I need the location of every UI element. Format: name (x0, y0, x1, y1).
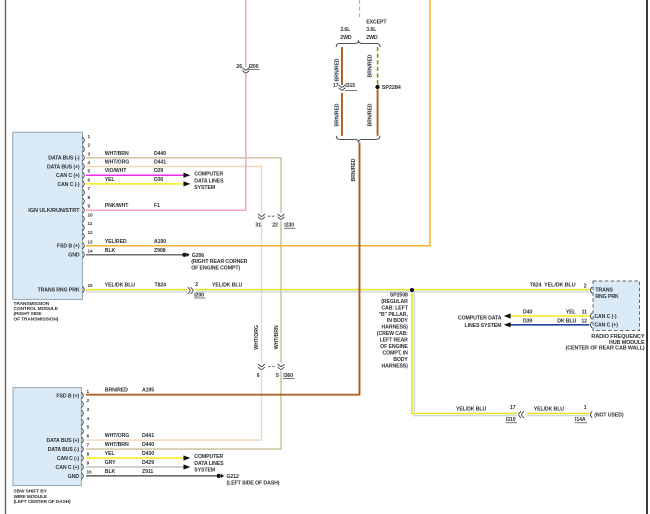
module RF hub caption (566, 334, 645, 352)
wire D430 YEL: SBW pin8 to computer data lines (86, 457, 184, 459)
svg-text:VIO/WHT: VIO/WHT (105, 168, 127, 174)
svg-text:YEL: YEL (105, 177, 116, 183)
svg-text:2WD: 2WD (366, 35, 378, 41)
svg-text:1: 1 (87, 389, 90, 394)
svg-text:GND: GND (68, 253, 80, 259)
node computer data lines system (SBW) (194, 454, 224, 474)
svg-text:17: 17 (510, 405, 516, 411)
svg-text:SYSTEM: SYSTEM (194, 468, 215, 474)
svg-text:CAN C (+): CAN C (+) (594, 323, 618, 329)
svg-text:DATA BUS (-): DATA BUS (-) (48, 156, 80, 162)
svg-text:TRANS: TRANS (595, 287, 613, 293)
svg-text:4: 4 (87, 416, 90, 421)
svg-text:I360: I360 (283, 373, 293, 379)
brace merge bottom (336, 136, 380, 143)
wire BRN/RED left branch upper (3.6L 2WD) (341, 47, 343, 85)
svg-text:COMPT, IN: COMPT, IN (382, 350, 408, 356)
svg-text:WHT/ORG: WHT/ORG (254, 325, 260, 349)
svg-text:SBW SHIFT BY: SBW SHIFT BY (14, 489, 48, 495)
border frame right (646, 0, 648, 514)
border frame left (5, 0, 7, 514)
splice SP2508 caption (377, 292, 409, 369)
module RF hub pin labels (594, 287, 619, 328)
module SBW pin labels (46, 393, 79, 479)
module TCM caption (14, 301, 59, 323)
svg-text:YEL/RED: YEL/RED (105, 239, 127, 245)
svg-text:14: 14 (88, 248, 94, 253)
module TCM box (13, 132, 83, 299)
svg-text:8: 8 (87, 452, 90, 457)
brace split top (336, 40, 380, 47)
svg-text:(CREW CAB:: (CREW CAB: (377, 331, 408, 337)
wire F1 PNK/WHT: TCM pin9 up off page (86, 74, 246, 210)
svg-text:D441: D441 (154, 160, 166, 166)
svg-text:BRN/RED: BRN/RED (351, 158, 357, 181)
svg-text:12: 12 (581, 318, 587, 324)
svg-text:DATA BUS (+): DATA BUS (+) (47, 164, 80, 170)
svg-text:YEL/DK BLU: YEL/DK BLU (456, 407, 486, 413)
wire Z908 BLK: TCM pin14 to ground (86, 254, 182, 256)
connector I310 pin 17 (506, 405, 525, 423)
node computer data lines system (TCM) (194, 171, 224, 191)
wire D29 VIO/WHT to computer data lines (86, 174, 184, 176)
svg-text:6: 6 (87, 434, 90, 439)
svg-text:I200: I200 (249, 64, 259, 70)
svg-text:T824 YEL/DK BLU: T824 YEL/DK BLU (530, 283, 576, 289)
svg-text:(RIGHT SIDE: (RIGHT SIDE (14, 311, 43, 317)
svg-text:YEL/DK BLU: YEL/DK BLU (534, 407, 564, 413)
svg-text:DATA BUS (+): DATA BUS (+) (46, 438, 79, 444)
svg-text:CAN C (+): CAN C (+) (56, 465, 80, 471)
svg-text:WHT/ORG: WHT/ORG (105, 433, 129, 439)
svg-text:DATA BUS (-): DATA BUS (-) (48, 447, 80, 453)
svg-text:A195: A195 (142, 388, 154, 394)
svg-text:D430: D430 (142, 451, 154, 457)
wire BRN/RED merged vertical to SBW pin 1 (A195) (358, 142, 360, 394)
module TCM pins 1-15 (82, 134, 93, 293)
svg-text:DATA LINES: DATA LINES (194, 178, 224, 184)
svg-text:5: 5 (88, 169, 91, 174)
svg-text:6: 6 (257, 373, 260, 379)
svg-text:G212: G212 (227, 474, 240, 480)
svg-text:D440: D440 (154, 151, 166, 157)
connector I230 pins 31 / 22 (255, 213, 295, 229)
svg-text:FSD B (+): FSD B (+) (57, 244, 80, 250)
svg-text:WHT/BRN: WHT/BRN (105, 442, 129, 448)
svg-text:3: 3 (88, 151, 91, 156)
node label 3.6L 2WD (340, 27, 352, 41)
svg-text:(CENTER OF REAR CAB WALL): (CENTER OF REAR CAB WALL) (566, 346, 645, 352)
connector I200 pin 26 (236, 64, 259, 73)
svg-text:YEL/DK BLU: YEL/DK BLU (212, 283, 242, 289)
wire D40 YEL: hub pin11 to computer data lines (510, 315, 589, 317)
svg-text:1: 1 (88, 134, 91, 139)
svg-text:WHT/BRN: WHT/BRN (274, 325, 280, 349)
svg-text:EXCEPT: EXCEPT (366, 19, 387, 25)
svg-text:D29: D29 (154, 168, 163, 174)
node label EXCEPT 3.6L 2WD (366, 19, 387, 41)
svg-text:10: 10 (88, 212, 94, 217)
svg-text:BLK: BLK (105, 248, 116, 254)
svg-text:7: 7 (88, 186, 91, 191)
connector I360 pins 6 / 5 (257, 363, 295, 379)
svg-text:7: 7 (87, 443, 90, 448)
svg-text:11: 11 (582, 310, 587, 316)
svg-text:YEL: YEL (105, 451, 116, 457)
svg-text:DATA LINES: DATA LINES (194, 461, 224, 467)
svg-text:11: 11 (88, 221, 93, 226)
svg-text:DK BLU: DK BLU (557, 318, 576, 324)
wire T824 YEL/DK BLU: I200 to RF hub pin 2 (196, 289, 590, 291)
svg-text:3: 3 (87, 407, 90, 412)
svg-text:GND: GND (68, 474, 80, 480)
svg-text:SYSTEM: SYSTEM (194, 185, 215, 191)
svg-text:2WD: 2WD (340, 35, 352, 41)
svg-text:WHT/BRN: WHT/BRN (105, 151, 129, 157)
svg-text:BRN/RED: BRN/RED (335, 103, 341, 126)
svg-text:PNK/WHT: PNK/WHT (105, 203, 129, 209)
svg-text:CAN C (-): CAN C (-) (57, 456, 80, 462)
svg-text:I14A: I14A (575, 417, 586, 423)
svg-text:A190: A190 (154, 239, 166, 245)
svg-text:I315: I315 (345, 83, 355, 89)
svg-text:OF ENGINE COMPT): OF ENGINE COMPT) (191, 265, 240, 271)
svg-text:SP2508: SP2508 (390, 292, 408, 298)
svg-text:26: 26 (236, 64, 242, 70)
svg-text:BODY: BODY (393, 357, 408, 363)
svg-text:GRY: GRY (105, 460, 116, 466)
svg-text:4: 4 (88, 160, 91, 165)
svg-text:CAN C (-): CAN C (-) (57, 182, 80, 188)
wire YEL/DK BLU: SP2508 down to I310 (412, 292, 517, 414)
svg-text:D441: D441 (142, 433, 154, 439)
svg-text:LINES SYSTEM: LINES SYSTEM (465, 323, 502, 329)
svg-text:BLK: BLK (105, 469, 116, 475)
svg-text:I200: I200 (194, 292, 204, 298)
svg-text:FSD B (+): FSD B (+) (56, 393, 79, 399)
svg-text:9: 9 (88, 204, 91, 209)
wire BRN/RED right branch lower (376, 90, 378, 136)
svg-text:3.6L: 3.6L (340, 27, 351, 33)
connector I200 pin 2 (T824) (188, 282, 206, 299)
svg-text:2: 2 (88, 143, 91, 148)
svg-text:6: 6 (88, 177, 91, 182)
wire D30 YEL to computer data lines (86, 183, 184, 185)
connector I315 pin 17 (333, 83, 357, 91)
wire BRN/RED right branch dashed (EXCEPT 3.6L 2WD) (377, 47, 379, 85)
svg-text:"B" PILLAR,: "B" PILLAR, (379, 312, 409, 318)
svg-text:WIRE MODULE: WIRE MODULE (14, 494, 48, 500)
svg-text:2: 2 (195, 282, 198, 288)
svg-text:Z911: Z911 (142, 469, 153, 475)
svg-text:9: 9 (87, 461, 90, 466)
svg-text:(LEFT SIDE OF DASH): (LEFT SIDE OF DASH) (227, 480, 280, 486)
svg-text:HARNESS): HARNESS) (382, 325, 409, 331)
svg-text:2: 2 (87, 398, 90, 403)
wire D39 DK BLU: hub pin12 to computer data lines (510, 324, 589, 326)
svg-text:5: 5 (87, 425, 90, 430)
svg-text:3.6L: 3.6L (366, 27, 377, 33)
svg-text:(NOT USED): (NOT USED) (594, 412, 624, 418)
node computer data lines system (hub) (458, 315, 502, 329)
svg-text:10: 10 (87, 469, 93, 474)
svg-text:CONTROL MODULE: CONTROL MODULE (14, 306, 59, 312)
svg-text:(RIGHT REAR CORNER: (RIGHT REAR CORNER (191, 259, 247, 265)
svg-text:T824: T824 (155, 283, 167, 289)
svg-text:13: 13 (88, 239, 94, 244)
svg-text:CAN C (+): CAN C (+) (56, 173, 80, 179)
svg-text:22: 22 (272, 223, 278, 229)
svg-text:CAN C (-): CAN C (-) (594, 314, 617, 320)
svg-text:I230: I230 (284, 223, 294, 229)
module RF hub pin 2 (590, 287, 592, 293)
svg-text:TRANS RNG PRK: TRANS RNG PRK (38, 288, 80, 294)
svg-text:COMPUTER: COMPUTER (194, 454, 223, 460)
wire A190 YEL/RED: TCM pin13 up off page (86, 0, 430, 246)
svg-text:RNG PRK: RNG PRK (595, 294, 619, 300)
svg-text:31: 31 (255, 223, 261, 229)
svg-text:15: 15 (88, 283, 94, 288)
svg-text:CAB: LEFT: CAB: LEFT (381, 305, 408, 311)
svg-text:D40: D40 (523, 310, 532, 316)
svg-text:BRN/RED: BRN/RED (335, 58, 341, 81)
svg-text:BRN/RED: BRN/RED (367, 103, 373, 126)
svg-text:LEFT REAR: LEFT REAR (380, 338, 409, 344)
svg-text:I310: I310 (506, 417, 516, 423)
svg-text:D440: D440 (142, 442, 154, 448)
module SBW box (13, 388, 81, 486)
svg-text:(REGULAR: (REGULAR (381, 299, 408, 305)
module SBW pins 1-10 (81, 389, 92, 479)
connector I14A pin 1 (not used) (575, 405, 624, 423)
wire Z911 BLK: SBW pin10 to ground (86, 475, 217, 477)
svg-text:17: 17 (333, 83, 339, 89)
svg-text:YEL: YEL (566, 310, 577, 316)
ground G212 (217, 474, 280, 487)
svg-text:WHT/ORG: WHT/ORG (105, 160, 129, 166)
wire D429 GRY: SBW pin9 to computer data lines (86, 466, 184, 468)
module RF hub pin 12 (590, 322, 592, 328)
svg-text:HARNESS): HARNESS) (382, 363, 409, 369)
svg-text:2: 2 (584, 283, 587, 289)
module RF hub box (593, 281, 640, 331)
splice SP2508 (410, 288, 414, 292)
svg-text:1: 1 (584, 405, 587, 411)
wire YEL/DK BLU: I310 to I14A (not used) (527, 413, 590, 415)
svg-text:OF TRANSMISSION): OF TRANSMISSION) (14, 316, 59, 322)
svg-text:COMPUTER DATA: COMPUTER DATA (458, 315, 502, 321)
svg-text:OF ENGINE: OF ENGINE (380, 344, 408, 350)
svg-text:IN BODY: IN BODY (387, 318, 409, 324)
svg-text:BRN/RED: BRN/RED (105, 388, 128, 394)
svg-text:8: 8 (88, 195, 91, 200)
svg-text:(LEFT CENTER OF DASH): (LEFT CENTER OF DASH) (14, 499, 72, 505)
svg-text:D30: D30 (154, 177, 163, 183)
wire dashed feed from top (359, 0, 361, 20)
svg-text:D39: D39 (523, 318, 532, 324)
wire T824 YEL/DK BLU: TCM pin15 to connector I200 (86, 289, 187, 291)
svg-text:G206: G206 (192, 253, 205, 259)
ground G206 (182, 253, 247, 272)
module RF hub pin 11 (590, 313, 592, 319)
svg-text:12: 12 (88, 230, 94, 235)
wire D441 WHT/ORG: TCM pin4 to SBW pin6 (86, 167, 262, 441)
wire BRN/RED left branch lower (341, 93, 343, 136)
svg-text:5: 5 (276, 373, 279, 379)
splice SP2284 (375, 85, 379, 89)
svg-text:SP2284: SP2284 (382, 85, 402, 91)
module SBW caption (14, 489, 72, 505)
module TCM pin labels (28, 156, 80, 294)
svg-text:D429: D429 (142, 460, 154, 466)
svg-text:IGN ULK/RUN/STRT: IGN ULK/RUN/STRT (28, 208, 80, 214)
svg-text:BRN/RED: BRN/RED (367, 54, 373, 77)
svg-text:Z908: Z908 (154, 248, 166, 254)
svg-text:TRANSMISSION: TRANSMISSION (14, 301, 50, 307)
wire D440 WHT/BRN: TCM pin3 to SBW pin7 (86, 158, 281, 449)
svg-text:COMPUTER: COMPUTER (194, 171, 223, 177)
svg-text:YEL/DK BLU: YEL/DK BLU (105, 283, 135, 289)
svg-text:F1: F1 (154, 203, 160, 209)
